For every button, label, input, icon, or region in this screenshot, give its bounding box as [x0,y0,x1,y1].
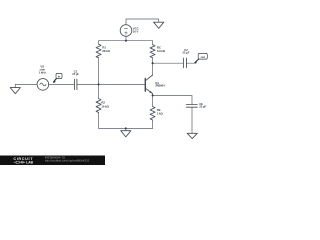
capacitor C2 [183,58,186,68]
capacitor CE [186,105,197,108]
wire R2 bottom lead [98,113,100,129]
svg-text:10 kΩ: 10 kΩ [101,104,109,108]
source VS [37,79,49,91]
svg-text:2N3904: 2N3904 [155,84,165,88]
svg-text:1 kHz: 1 kHz [39,70,47,74]
svg-text:10 V: 10 V [133,30,139,34]
svg-text:out: out [201,55,205,59]
wire R1 top lead [98,41,100,45]
svg-text:22 µF: 22 µF [199,105,206,109]
voltage source VCC [120,25,132,37]
wire emitter row to CE [153,96,192,105]
transistor Q1 emitter lead [145,88,152,95]
resistor R1 [96,44,101,58]
wire bottom ground stub [125,128,127,130]
ground bottom right [187,133,197,138]
wire C1 to base junction [77,83,99,85]
svg-text:3.9 kΩ: 3.9 kΩ [157,49,166,53]
node tag out [194,53,207,63]
wire source to C1 [49,83,75,85]
resistor R2 [96,99,101,113]
watermark bar [0,156,105,166]
transistor Q1 emitter arrow [149,91,152,94]
svg-text:in: in [58,75,61,79]
node junction bottom rail [125,127,127,129]
ground left [10,88,20,94]
wire RC bottom lead to collector node [152,58,154,64]
wire output row to C2 [153,62,184,64]
node junction base [98,83,100,85]
wire collector vertical [152,63,154,75]
resistor RE [150,107,155,121]
wire RE bottom lead [152,120,154,128]
wire input row left of source [15,83,37,85]
node junction top rail [125,40,127,42]
wire top rail [99,40,153,42]
capacitor C1 [74,79,77,89]
transistor Q1 collector lead [145,75,152,81]
svg-text:1 kΩ: 1 kΩ [157,111,164,115]
ground bottom center [121,131,131,137]
resistor RC [150,45,155,58]
svg-text:http://circuitlab.com/c/ug-bsd: http://circuitlab.com/c/ug-bsdb8t0c4/232 [45,160,90,163]
wire VCC top to ground arm [126,19,159,25]
wire C2 to out tag [187,62,196,64]
svg-text:47 µF: 47 µF [72,72,79,76]
node junction collector [152,62,154,64]
node tag in [53,73,62,83]
wire bottom rail [99,127,153,129]
wire CE bottom stub [191,107,193,133]
transistor Q1 base bar [144,79,146,92]
svg-text:22 µF: 22 µF [182,51,189,55]
wire left ground stub [14,84,16,87]
wire R1 bottom lead [98,59,100,85]
wire RC top lead [152,41,154,45]
svg-text:LAB: LAB [26,161,33,165]
svg-text:68 kΩ: 68 kΩ [102,49,110,53]
wire base junction to transistor base [99,83,145,85]
wire VCC stub to rail [125,36,127,40]
ground top right [154,22,164,28]
wire emitter node to RE [152,96,154,107]
wire R2 top lead [98,84,100,98]
node junction emitter [152,94,154,96]
